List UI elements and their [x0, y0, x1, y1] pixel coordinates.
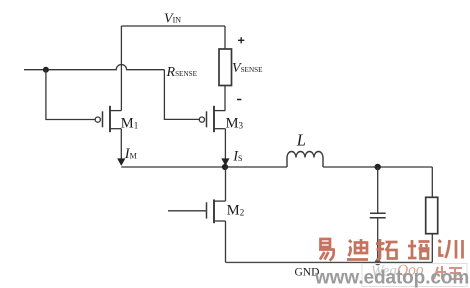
capacitor C plates: [370, 213, 386, 218]
watermark char yi: [319, 239, 334, 261]
watermark char pei: [408, 240, 430, 259]
wire VIN to M1 source: [120, 26, 122, 111]
capacitor C bottom lead: [377, 218, 379, 263]
junction IS node: [222, 164, 228, 170]
wire inductor to output node: [323, 166, 432, 168]
wire RSENSE node to M3 gate: [164, 70, 199, 120]
junction output node: [375, 164, 381, 170]
label minus: [237, 99, 241, 101]
resistor load bottom lead: [431, 234, 433, 263]
resistor load top lead: [431, 167, 433, 197]
label plus: [238, 37, 244, 43]
junction capacitor to ground: [375, 259, 381, 265]
wire VIN rail: [121, 25, 225, 27]
wire input net horizontal with hop over M1 source line: [24, 65, 164, 70]
current arrow IS: [224, 129, 226, 159]
watermark char di: [347, 239, 368, 260]
watermark char xun: [439, 240, 463, 259]
wire ground rail: [226, 261, 433, 263]
transistor M1 (PMOS): [95, 106, 121, 132]
wire switch node: [121, 166, 287, 168]
resistor RSENSE bottom lead: [224, 86, 226, 111]
resistor RSENSE top lead: [224, 26, 226, 49]
current arrow IM: [120, 129, 122, 159]
inductor L: [287, 152, 323, 168]
resistor RSENSE body: [219, 49, 232, 86]
watermark char tuo: [376, 239, 398, 259]
watermark chars weiku: [434, 266, 463, 279]
resistor load body: [426, 197, 438, 233]
wire M2 source to ground rail: [225, 221, 227, 262]
wire M2 drain to switch node: [225, 167, 227, 201]
junction input node: [43, 67, 49, 73]
capacitor C top lead: [377, 167, 379, 213]
transistor M2 (NMOS): [168, 199, 226, 223]
transistor M3 (PMOS): [199, 106, 225, 132]
svg-text:L: L: [296, 130, 306, 149]
svg-text:www.edatop.com: www.edatop.com: [314, 268, 469, 288]
watermark logo box: [362, 264, 467, 287]
wire input node to M1 gate: [46, 70, 95, 120]
